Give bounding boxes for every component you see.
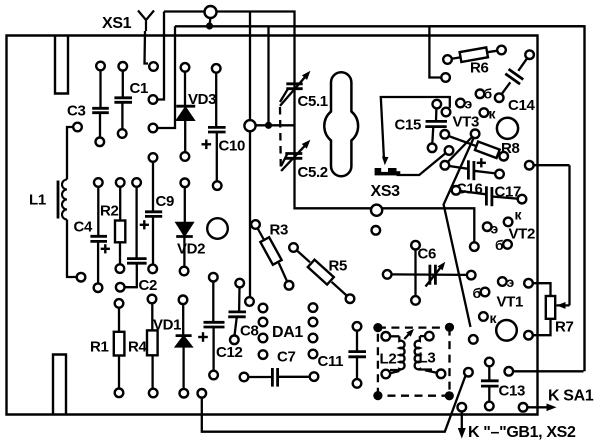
svg-text:K "–"GB1, XS2: K "–"GB1, XS2 bbox=[468, 424, 576, 441]
wire from bus Y2 down-left to pad bbox=[149, 26, 175, 132]
resistor R7 (trimmer) bbox=[524, 279, 555, 340]
ferrite rod holder (keyhole outline) bbox=[324, 72, 358, 176]
label VD1 bbox=[153, 317, 181, 334]
svg-text:C11: C11 bbox=[318, 353, 344, 370]
svg-text:K SA1: K SA1 bbox=[548, 388, 594, 405]
svg-text:DA1: DA1 bbox=[272, 324, 303, 341]
svg-text:VT2: VT2 bbox=[509, 226, 535, 243]
svg-text:C9: C9 bbox=[156, 193, 174, 210]
resistor R1 bbox=[114, 299, 125, 397]
svg-text:L3: L3 bbox=[419, 350, 436, 367]
label VT1 bbox=[497, 294, 523, 311]
diode VD1 bbox=[176, 296, 192, 398]
label R5 bbox=[329, 258, 347, 275]
capacitor C12 (electrolytic) bbox=[198, 273, 224, 379]
capacitor C4 (electrolytic) bbox=[90, 178, 110, 292]
XS3 ring pad on box edge bbox=[371, 205, 382, 216]
wire from bus Y1 down-left to pad bbox=[149, 12, 164, 104]
diode VD3 bbox=[176, 63, 195, 161]
capacitor C13 bbox=[481, 358, 499, 411]
capacitor C2 bbox=[116, 178, 147, 291]
svg-text:э: э bbox=[465, 96, 473, 112]
capacitor C11 bbox=[348, 322, 366, 388]
transistor VT1 pin э bbox=[498, 274, 515, 290]
capacitor C10 (electrolytic) bbox=[202, 64, 226, 190]
wire bus Y1 (upper horizontal to C5 box) bbox=[164, 12, 479, 251]
svg-text:VD2: VD2 bbox=[177, 241, 205, 258]
pad below XS3 bbox=[372, 226, 381, 235]
svg-text:L2: L2 bbox=[380, 351, 397, 368]
svg-text:L1: L1 bbox=[29, 192, 46, 209]
transistor VT1 pin б bbox=[473, 285, 490, 301]
capacitor C16 (electrolytic) bbox=[441, 158, 504, 180]
svg-text:C5.1: C5.1 bbox=[298, 93, 328, 110]
svg-text:C10: C10 bbox=[219, 138, 245, 155]
transformer tuning arrow bbox=[404, 327, 416, 339]
svg-text:VD1: VD1 bbox=[153, 317, 181, 334]
svg-text:C15: C15 bbox=[395, 117, 421, 134]
svg-text:C7: C7 bbox=[277, 349, 295, 366]
label R8 bbox=[501, 140, 519, 157]
svg-text:C8: C8 bbox=[240, 323, 258, 340]
label C5.2 bbox=[298, 164, 328, 181]
label R7 bbox=[555, 319, 573, 336]
svg-text:XS3: XS3 bbox=[371, 183, 401, 200]
label XS1 bbox=[102, 15, 132, 32]
capacitor C8 bbox=[228, 279, 246, 344]
label L1 bbox=[29, 192, 46, 209]
resistor R4 bbox=[147, 295, 158, 398]
svg-text:R4: R4 bbox=[128, 339, 147, 356]
pad right of C15 (R8 area) bbox=[471, 130, 480, 139]
svg-text:C3: C3 bbox=[67, 103, 85, 120]
label R1 bbox=[90, 339, 108, 356]
wire W2 from C16 pad up to R8-left pad bbox=[448, 137, 473, 163]
label VT2 bbox=[509, 226, 535, 243]
long wire from R8-left pad down to pad near L3 bbox=[444, 138, 478, 344]
transformer shield dashed box bbox=[373, 323, 454, 401]
K SA1 arrow bbox=[519, 403, 557, 412]
label R3 bbox=[270, 222, 288, 239]
resistor R6 bbox=[443, 46, 506, 64]
wire vertical from bus Y2 to junction dot bbox=[267, 26, 269, 125]
label C13 bbox=[499, 383, 525, 400]
label C16 bbox=[456, 181, 482, 198]
dashed gang line between C5.1 and C5.2 bbox=[279, 107, 282, 170]
transistor VT3 pin б bbox=[476, 86, 493, 102]
svg-text:R7: R7 bbox=[555, 319, 573, 336]
resistor R2 bbox=[115, 178, 125, 273]
label C9 bbox=[156, 193, 174, 210]
svg-text:R3: R3 bbox=[270, 222, 288, 239]
label C7 bbox=[277, 349, 295, 366]
transistor VT1 body circle bbox=[496, 320, 517, 341]
svg-text:C1: C1 bbox=[130, 80, 148, 97]
label C2 bbox=[139, 277, 157, 294]
transistor VT1 pin к bbox=[479, 310, 497, 326]
label C6 bbox=[418, 246, 436, 263]
svg-text:C13: C13 bbox=[499, 383, 525, 400]
resistor R5 bbox=[289, 243, 354, 303]
svg-text:C14: C14 bbox=[508, 97, 535, 114]
capacitor C14 (diagonal) bbox=[495, 50, 534, 102]
via hole circle near VD2 bbox=[207, 218, 228, 239]
label VD2 bbox=[177, 241, 205, 258]
svg-text:VT1: VT1 bbox=[497, 294, 523, 311]
transistor VT3 body circle bbox=[497, 118, 518, 139]
svg-text:R5: R5 bbox=[329, 258, 347, 275]
svg-text:C12: C12 bbox=[216, 344, 242, 361]
pad with wire to R7 wiper rail bbox=[525, 161, 570, 306]
label DA1 bbox=[272, 324, 303, 341]
wire from bus Y2 down to pad near R6 bbox=[429, 26, 450, 81]
capacitor C7 bbox=[240, 368, 319, 387]
svg-text:R6: R6 bbox=[470, 60, 488, 77]
label L2 bbox=[380, 351, 397, 368]
IC DA1 pads bbox=[259, 303, 318, 359]
capacitor C1 bbox=[114, 62, 132, 138]
transistor VT2 pin к bbox=[504, 207, 523, 227]
label C3 bbox=[67, 103, 85, 120]
antenna symbol XS1 bbox=[138, 11, 158, 71]
junction dot on ring-pad wire bbox=[265, 122, 272, 129]
antenna terminal ring on bus Y1 bbox=[205, 6, 217, 18]
label K SA1 bbox=[548, 388, 594, 405]
transistor VT3 pin к bbox=[480, 106, 497, 122]
K GB1 XS2 arrow bbox=[458, 403, 467, 439]
wire bus Y2 (second horizontal) bbox=[175, 25, 584, 27]
resistor R3 bbox=[251, 220, 293, 289]
svg-text:C6: C6 bbox=[418, 246, 436, 263]
R7 wiper arrow bbox=[557, 302, 570, 309]
transistor VT2 pin э bbox=[483, 221, 499, 237]
label C12 bbox=[216, 344, 242, 361]
label VT3 bbox=[453, 114, 479, 131]
svg-text:C2: C2 bbox=[139, 277, 157, 294]
label R4 bbox=[128, 339, 147, 356]
label K GB1 XS2 bbox=[468, 424, 576, 441]
connector XS3 bar bbox=[375, 168, 401, 175]
resistor R8 bbox=[441, 130, 509, 161]
label C4 bbox=[74, 219, 93, 236]
svg-text:R1: R1 bbox=[90, 339, 108, 356]
label C15 bbox=[395, 117, 421, 134]
label C1 bbox=[130, 80, 148, 97]
label C17 bbox=[495, 184, 521, 201]
variable capacitor C5.1 bbox=[280, 69, 313, 106]
svg-text:э: э bbox=[507, 274, 515, 290]
capacitor C17 bbox=[452, 186, 527, 206]
label R2 bbox=[100, 203, 118, 220]
label C5.1 bbox=[298, 93, 328, 110]
wire with arrow onto XS3 from above bbox=[381, 97, 451, 165]
wire from pad to board edge (bottom right) bbox=[505, 367, 584, 376]
junction dot below antenna terminal bbox=[206, 18, 213, 29]
label C14 bbox=[508, 97, 535, 114]
svg-text:VT3: VT3 bbox=[453, 114, 479, 131]
under-board jumper wire bbox=[198, 368, 473, 432]
svg-text:R8: R8 bbox=[501, 140, 519, 157]
trimmer capacitor C6 bbox=[383, 241, 476, 305]
label L3 bbox=[419, 350, 436, 367]
svg-text:C4: C4 bbox=[74, 219, 93, 236]
label C8 bbox=[240, 323, 258, 340]
capacitor C3 bbox=[92, 62, 109, 146]
capacitor C9 (electrolytic) bbox=[140, 153, 163, 273]
label VD3 bbox=[188, 91, 216, 108]
svg-text:R2: R2 bbox=[100, 203, 118, 220]
wire from XS3 bar to pad (W1) bbox=[397, 146, 454, 175]
diode VD2 bbox=[176, 179, 193, 276]
board top-right extension outline bbox=[429, 26, 584, 371]
svg-text:VD3: VD3 bbox=[188, 91, 216, 108]
svg-text:э: э bbox=[491, 221, 499, 237]
svg-text:XS1: XS1 bbox=[102, 15, 132, 32]
capacitor C15 bbox=[425, 100, 447, 152]
inductor L3 bbox=[415, 332, 446, 378]
label C10 bbox=[219, 138, 245, 155]
inductor L1 bbox=[58, 123, 85, 282]
svg-text:C5.2: C5.2 bbox=[298, 164, 328, 181]
transistor VT3 pin э bbox=[456, 96, 472, 112]
wire horizontal at ring pad to C5 box edge bbox=[256, 124, 295, 126]
wire stub vertical x250 with ring pad bbox=[244, 12, 255, 306]
svg-text:C17: C17 bbox=[495, 184, 521, 201]
label C11 bbox=[318, 353, 344, 370]
board outline (PCB edge with left-side slots) bbox=[7, 36, 538, 415]
inductor L2 bbox=[382, 332, 405, 378]
label R6 bbox=[470, 60, 488, 77]
transistor VT2 pin б bbox=[495, 237, 512, 253]
label XS3 bbox=[371, 183, 401, 200]
variable capacitor C5.2 bbox=[281, 137, 313, 171]
